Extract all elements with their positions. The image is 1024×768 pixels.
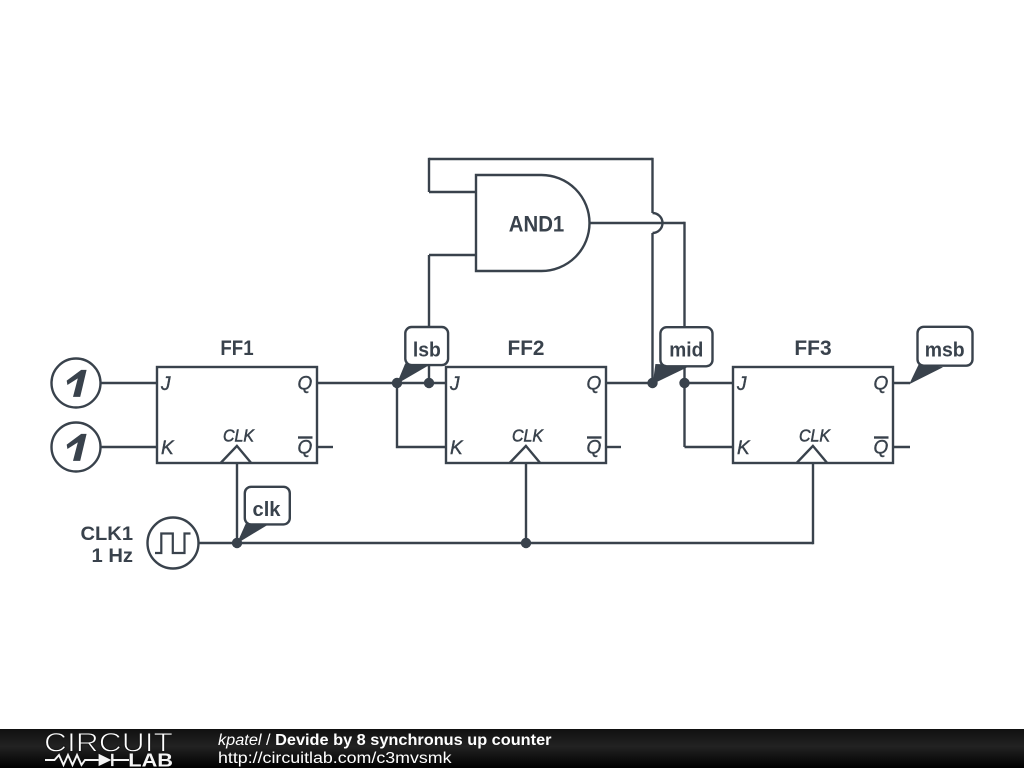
constant source V1 value 1 — [52, 359, 101, 408]
svg-text:http://circuitlab.com/c3mvsmk: http://circuitlab.com/c3mvsmk — [218, 750, 452, 767]
svg-text:CLK: CLK — [223, 426, 255, 446]
wire AND1 top input stub — [429, 191, 476, 193]
svg-text:K: K — [450, 438, 464, 459]
svg-text:J: J — [449, 374, 460, 395]
wire AND1 top input loop: left vertical — [428, 158, 430, 192]
footer bar — [0, 729, 1024, 768]
and-gate AND1 — [476, 175, 590, 271]
wire FF3 Qbar stub — [893, 446, 910, 448]
wire clk horizontal line — [199, 542, 814, 544]
svg-text:CLK1: CLK1 — [81, 523, 134, 545]
constant source V2 value 1 — [52, 423, 101, 472]
node msb flag — [909, 327, 972, 384]
flip-flop FF3 — [733, 336, 893, 463]
svg-text:lsb: lsb — [413, 339, 441, 362]
wire lsb node up to AND1 bottom input — [428, 255, 430, 383]
svg-text:Q: Q — [587, 438, 602, 459]
wire to FF3 K — [685, 446, 734, 448]
wire AND1 bottom input stub — [429, 254, 476, 256]
svg-text:FF3: FF3 — [794, 336, 831, 360]
svg-text:Q: Q — [587, 374, 602, 395]
flip-flop FF2 — [446, 336, 606, 463]
svg-text:1 Hz: 1 Hz — [92, 545, 134, 567]
svg-text:K: K — [737, 438, 751, 459]
node clk flag — [237, 487, 290, 544]
wire FF1 Q to FF2 J — [317, 382, 446, 384]
wire V2 to FF1 K — [101, 446, 158, 448]
svg-text:J: J — [160, 374, 171, 395]
svg-text:Q: Q — [874, 374, 889, 395]
junction lsb node 2 (to AND1 input) — [424, 378, 434, 388]
svg-text:kpatel / Devide by 8 synchronu: kpatel / Devide by 8 synchronus up count… — [218, 732, 552, 749]
wire FF1 CLK down to clk line — [236, 463, 238, 543]
wire AND1 output vertical down to FF3 J/K — [683, 222, 685, 447]
wire AND1 top input loop (mid feedback): top horizontal — [429, 158, 653, 160]
wire AND1 output horizontal — [589, 222, 685, 224]
svg-text:Q: Q — [298, 374, 313, 395]
svg-text:CLK: CLK — [799, 426, 831, 446]
wire lsb node down to FF2 K — [397, 383, 446, 447]
flip-flop FF1 — [157, 336, 317, 463]
svg-text:FF2: FF2 — [508, 336, 545, 360]
junction AND1 output to FF3 J/K — [679, 378, 689, 388]
svg-text:msb: msb — [925, 339, 965, 362]
footer title text — [218, 732, 552, 767]
wire to FF3 J — [685, 382, 734, 384]
wire clk line up to FF3 CLK — [812, 463, 814, 544]
junction clk node (flag) — [232, 538, 242, 548]
svg-text:mid: mid — [669, 338, 703, 361]
junction mid node (FF2.Q / flag) — [647, 378, 657, 388]
wire mid feedback vertical lower (hop to mid node) — [651, 233, 653, 383]
node lsb flag — [397, 327, 448, 384]
clock source CLK1 1 Hz — [81, 518, 199, 569]
svg-text:Q: Q — [298, 438, 313, 459]
wire FF2 Qbar stub — [606, 446, 621, 448]
svg-text:LAB: LAB — [128, 750, 173, 768]
svg-text:CLK: CLK — [512, 426, 544, 446]
wire hop over AND1 output — [653, 213, 663, 233]
wire mid feedback vertical upper (above hop) — [651, 158, 653, 213]
node mid flag — [653, 327, 713, 384]
junction lsb node (FF1.Q / FF2.K / flag) — [392, 378, 402, 388]
svg-text:FF1: FF1 — [220, 336, 253, 360]
svg-text:J: J — [736, 374, 747, 395]
wire FF2 Q to mid node — [606, 382, 653, 384]
svg-text:Q: Q — [874, 438, 889, 459]
svg-text:clk: clk — [253, 498, 282, 521]
wire FF2 CLK down to clk line — [525, 463, 527, 543]
wire FF1 Qbar stub — [317, 446, 333, 448]
svg-text:K: K — [161, 438, 175, 459]
wire V1 to FF1 J — [101, 382, 158, 384]
wire FF3 Q to msb flag — [893, 382, 910, 384]
svg-text:AND1: AND1 — [509, 212, 565, 237]
junction FF2 clock on clk line — [521, 538, 531, 548]
CircuitLab logo — [44, 728, 173, 768]
